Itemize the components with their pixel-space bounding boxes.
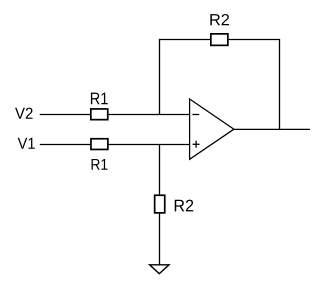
label R1 (non-inverting input resistor): [92, 159, 108, 170]
resistor R1 (inverting input): [91, 109, 108, 120]
wire R1 to op-amp non-inverting input: [109, 144, 190, 146]
wire R1 to op-amp inverting input: [109, 114, 190, 116]
wire V1 lead to R1: [40, 144, 90, 146]
resistor R2 (feedback): [211, 34, 228, 46]
op-amp U1: [190, 99, 234, 159]
resistor R1 (non-inverting input): [91, 139, 108, 150]
wire op-amp output: [234, 128, 310, 130]
label R1 (inverting input resistor): [91, 93, 108, 105]
wire feedback: R2 across and down to output: [229, 40, 280, 130]
wire feedback: inverting node up and across to R2: [160, 40, 211, 115]
node V1 (label): [18, 138, 35, 149]
wire R2 down to ground: [159, 214, 161, 265]
label R2 (ground resistor): [175, 200, 193, 212]
label R2 (feedback resistor): [210, 14, 229, 25]
ground: [150, 265, 169, 274]
node V2 (label): [15, 108, 33, 119]
wire V2 lead to R1: [40, 114, 90, 116]
resistor R2 (to ground): [155, 195, 165, 213]
wire non-inverting node down to R2: [159, 145, 161, 195]
